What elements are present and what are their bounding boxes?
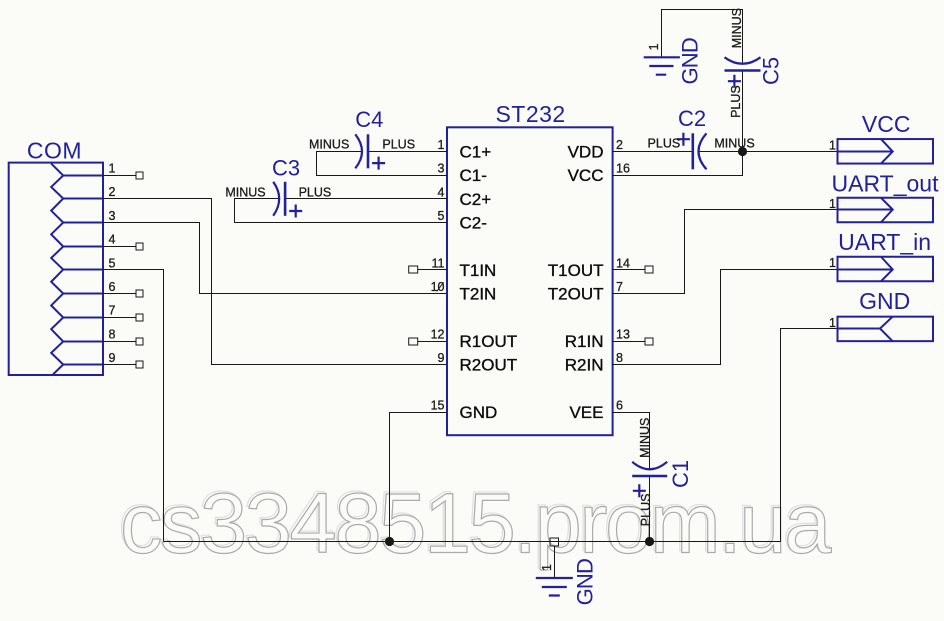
C3 plus plate — [284, 182, 287, 216]
svg-text:11: 11 — [432, 256, 445, 270]
connector COM zigzag contacts — [51, 164, 63, 375]
svg-text:1: 1 — [829, 256, 836, 270]
terminal box ground stem — [550, 538, 559, 546]
C1 plus sign — [633, 484, 646, 497]
wire C1 plus to ground bus — [649, 476, 651, 542]
svg-text:12: 12 — [431, 328, 445, 342]
svg-text:ST232: ST232 — [495, 101, 565, 127]
svg-text:VCC: VCC — [568, 166, 604, 185]
terminal box COM pin 4 — [136, 243, 143, 250]
capacitor C2 — [613, 106, 755, 175]
terminal box R1IN — [645, 338, 653, 345]
wire R1OUT stub pin 12 — [418, 341, 447, 343]
wire COM pin 9 stub — [103, 364, 136, 366]
svg-text:15: 15 — [431, 399, 445, 413]
ground symbol GND top — [644, 38, 703, 85]
svg-text:R1OUT: R1OUT — [460, 332, 518, 351]
svg-text:MINUS: MINUS — [730, 8, 744, 48]
wire ground bus — [164, 329, 838, 542]
svg-text:7: 7 — [616, 280, 623, 294]
wire COM pin 2 to R2OUT — [103, 199, 447, 365]
C4 minus plate arc — [355, 134, 362, 168]
svg-text:3: 3 — [438, 162, 445, 176]
svg-text:PLUS: PLUS — [382, 138, 415, 152]
svg-text:C1: C1 — [668, 460, 693, 488]
svg-text:5: 5 — [109, 256, 116, 270]
svg-text:C2-: C2- — [460, 214, 487, 233]
terminal box COM pin 6 — [136, 290, 143, 297]
terminal box T1IN — [409, 266, 418, 273]
wire GND pin 15 to ground bus — [390, 413, 448, 542]
svg-text:9: 9 — [438, 351, 445, 365]
svg-text:C4: C4 — [355, 107, 383, 132]
svg-text:PLUS: PLUS — [299, 185, 332, 199]
connector UART_out — [829, 170, 939, 222]
svg-text:VDD: VDD — [568, 142, 604, 161]
svg-text:16: 16 — [616, 162, 630, 176]
slash on zero of pin 10 — [437, 282, 444, 291]
C3 plus sign — [289, 205, 302, 218]
svg-text:PLUS: PLUS — [639, 494, 653, 527]
connector VCC — [829, 111, 933, 164]
wire C4 minus to C1- pin 3 — [317, 152, 448, 176]
pin numbers COM 1-9 — [109, 162, 116, 366]
C3 minus plate arc — [273, 182, 279, 216]
svg-text:T2OUT: T2OUT — [548, 285, 604, 304]
IC U1 ST232 body — [447, 127, 613, 435]
svg-text:7: 7 — [109, 304, 116, 318]
svg-text:4: 4 — [438, 185, 445, 199]
wire COM pin 8 stub — [103, 341, 136, 343]
C4 plus sign — [372, 157, 385, 170]
svg-text:PLUS: PLUS — [729, 85, 743, 118]
svg-text:2: 2 — [109, 185, 116, 199]
svg-text:R1IN: R1IN — [565, 332, 604, 351]
C5 minus plate arc — [725, 57, 761, 64]
wire T1OUT stub pin 14 — [613, 269, 645, 271]
wire VCC node to VCC connector — [743, 151, 838, 153]
svg-text:2: 2 — [616, 138, 623, 152]
wire VEE pin 6 to C1 minus — [613, 413, 650, 470]
C1 plus plate — [632, 475, 667, 478]
svg-text:GND: GND — [678, 38, 703, 85]
wire C2 minus to VCC node — [699, 151, 743, 153]
svg-text:cs3348515.prom.ua: cs3348515.prom.ua — [120, 477, 832, 572]
C1 minus plate arc — [632, 462, 667, 470]
svg-text:T1OUT: T1OUT — [548, 261, 604, 280]
svg-text:C1+: C1+ — [460, 142, 492, 161]
node VCC junction — [738, 147, 747, 156]
svg-text:9: 9 — [109, 351, 116, 365]
wire C4 plus to C1+ pin 1 — [368, 151, 447, 153]
C2 minus plate arc — [699, 133, 707, 169]
C2 plus sign — [677, 133, 690, 146]
svg-text:UART_in: UART_in — [838, 229, 931, 255]
svg-text:13: 13 — [616, 328, 630, 342]
wire R1IN stub pin 13 — [613, 341, 645, 343]
node junction GND15 on bus — [385, 537, 394, 546]
svg-text:GND: GND — [859, 288, 910, 314]
capacitor C5 — [662, 8, 784, 151]
wire C3 plus to C2+ pin 4 — [285, 198, 447, 200]
wire COM pin 1 stub — [103, 175, 136, 177]
capacitor C3 — [225, 155, 447, 222]
wire ground stem — [554, 546, 556, 578]
svg-text:GND: GND — [460, 403, 498, 422]
pin numbers IC right — [616, 138, 630, 413]
terminal box T1OUT — [645, 266, 653, 273]
svg-text:R2OUT: R2OUT — [460, 356, 518, 375]
svg-text:C5: C5 — [759, 57, 784, 85]
terminal box COM pin 9 — [136, 361, 143, 368]
terminal box COM pin 1 — [136, 172, 143, 179]
svg-text:6: 6 — [109, 280, 116, 294]
IC pin names right — [548, 142, 604, 422]
capacitor C4 — [309, 107, 447, 175]
wire COM pin 3 to T2IN — [103, 223, 447, 294]
svg-text:T1IN: T1IN — [460, 261, 497, 280]
svg-text:6: 6 — [616, 399, 623, 413]
connector UART_in — [829, 229, 933, 281]
C4 plus plate — [367, 134, 370, 168]
connector COM pin lines — [63, 176, 103, 365]
svg-text:8: 8 — [616, 351, 623, 365]
watermark cs3348515.prom.ua — [118, 475, 832, 572]
svg-text:C3: C3 — [272, 155, 300, 180]
pin numbers IC left — [431, 138, 445, 413]
svg-text:MINUS: MINUS — [309, 138, 349, 152]
svg-text:VEE: VEE — [569, 403, 603, 422]
wire COM pin 4 stub — [103, 246, 136, 248]
svg-text:C1-: C1- — [460, 166, 487, 185]
wire R2IN to UART_in connector — [613, 270, 838, 365]
IC pin names left — [460, 142, 518, 422]
svg-text:10: 10 — [431, 280, 445, 294]
svg-text:T2IN: T2IN — [460, 285, 497, 304]
svg-text:8: 8 — [109, 327, 116, 341]
wire VDD pin 2 to C2 plus — [613, 151, 693, 153]
svg-text:MINUS: MINUS — [638, 418, 652, 458]
svg-text:R2IN: R2IN — [565, 356, 604, 375]
C5 plus sign — [728, 75, 741, 88]
svg-text:MINUS: MINUS — [225, 185, 265, 199]
svg-text:1: 1 — [109, 162, 116, 176]
svg-text:C2: C2 — [678, 106, 706, 131]
connector GND — [829, 288, 933, 341]
terminal box R1OUT — [409, 338, 418, 345]
wire T1IN stub pin 11 — [418, 269, 447, 271]
ground symbol GND bottom — [536, 559, 598, 606]
svg-text:1: 1 — [829, 138, 836, 152]
C2 plus plate — [691, 133, 694, 169]
wire COM pin 6 stub — [103, 293, 136, 295]
wire COM pin 7 stub — [103, 317, 136, 319]
wire T2OUT to UART_out connector — [613, 210, 838, 294]
svg-text:UART_out: UART_out — [832, 170, 940, 196]
wire C5 plus to VCC node — [742, 71, 744, 152]
svg-text:MINUS: MINUS — [714, 137, 754, 151]
svg-text:VCC: VCC — [862, 111, 911, 137]
wire COM pin 5 to ground bus — [103, 270, 164, 542]
svg-text:1: 1 — [438, 138, 445, 152]
wire VCC pin 16 to VCC node — [613, 152, 743, 176]
svg-text:1: 1 — [647, 43, 661, 50]
terminal box COM pin 7 — [136, 314, 143, 321]
terminal box COM pin 8 — [136, 338, 143, 345]
wire C3 minus to C2- pin 5 — [235, 199, 448, 223]
wire C5 minus to ground GND1 — [662, 10, 743, 64]
svg-text:5: 5 — [438, 209, 445, 223]
svg-text:GND: GND — [573, 559, 598, 606]
connector J1 COM body — [9, 163, 103, 375]
svg-text:4: 4 — [109, 233, 116, 247]
svg-text:14: 14 — [616, 256, 630, 270]
svg-text:1: 1 — [829, 316, 836, 330]
C5 plus plate — [725, 69, 761, 72]
node junction C1 on bus — [645, 537, 654, 546]
capacitor C1 — [613, 413, 693, 542]
svg-text:1: 1 — [540, 564, 554, 571]
svg-text:PLUS: PLUS — [648, 137, 681, 151]
svg-text:1: 1 — [829, 197, 836, 211]
svg-text:3: 3 — [109, 209, 116, 223]
svg-text:C2+: C2+ — [460, 190, 492, 209]
svg-text:COM: COM — [27, 138, 82, 164]
